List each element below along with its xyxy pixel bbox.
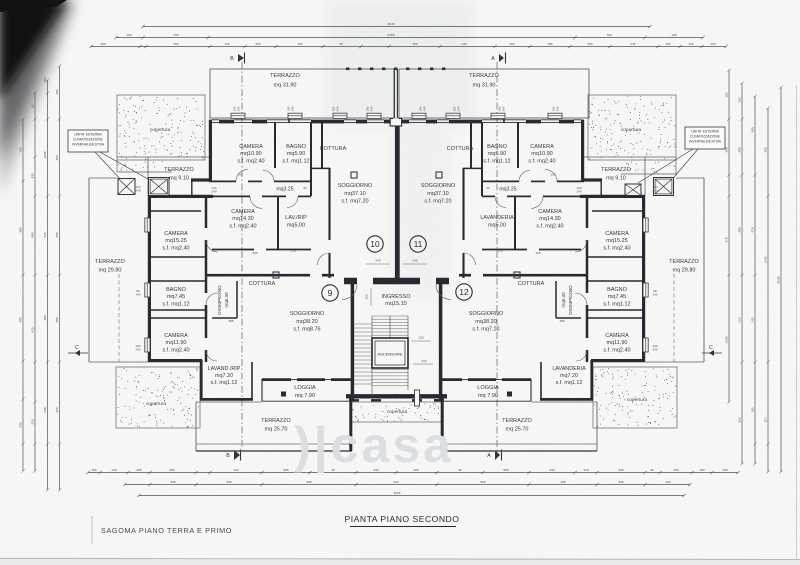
- corridor wall y=196: [543, 195, 580, 197]
- dim 240 under 10: [366, 263, 390, 265]
- ascensore box: [372, 338, 408, 368]
- window sills top wall thin: [574, 119, 581, 121]
- exterior wall: soggiorno/loggia with openings: [262, 378, 291, 381]
- stairwell side wall extension to terrace: [349, 398, 352, 451]
- exterior wall: unit upper-left vertical: [209, 120, 212, 181]
- exterior wall: camera 11.90 bottom: [591, 359, 645, 362]
- exterior wall: unit top (segments with window openings): [209, 120, 212, 124]
- dimension chain left-3: [47, 80, 49, 490]
- interior vertical x=206: [586, 196, 589, 228]
- stair treads upper: [372, 315, 408, 317]
- sill below stair bottom wall 2: [371, 399, 381, 401]
- stairwell side wall extension to terrace: [441, 398, 444, 451]
- bottom scan edge: [0, 559, 800, 560]
- camera 10.90 / bagno wall: [517, 122, 519, 168]
- scan corner dark top strip: [0, 0, 67, 12]
- stairwell side wall: [439, 281, 443, 400]
- long wall x=329: [328, 168, 330, 240]
- camera 10.90 / bagno wall: [274, 122, 276, 168]
- terrazzo top-left outline: [210, 69, 394, 118]
- loggia left edge: [261, 379, 263, 401]
- window sill top wall 1: [231, 113, 245, 118]
- apartment number 11: [410, 236, 426, 252]
- disimpegno wall: [555, 281, 557, 318]
- sill below stair bottom wall 1: [434, 399, 444, 401]
- dimension chain right-1: [728, 70, 730, 402]
- corridor wall y=181: [557, 180, 584, 182]
- dimension chain left-1: [22, 119, 24, 471]
- copertura stipple bottom-right: [593, 367, 677, 428]
- exterior wall: lavanderia left: [200, 360, 203, 400]
- sill below stair bottom wall 2: [412, 399, 422, 401]
- cottura separator: [321, 122, 323, 168]
- exterior wall: left main vertical: [642, 195, 645, 362]
- terrazzo 29.80 left outline: [88, 178, 90, 362]
- window sill loggia 1: [291, 379, 297, 381]
- ingresso T-wall stub: [344, 278, 357, 285]
- loggia bottom thin: [262, 400, 352, 402]
- dimension row bottom-3: [139, 495, 684, 497]
- scan streak top-center: [325, 0, 475, 125]
- small pillar left loggia: [281, 392, 286, 397]
- exterior wall: lavanderia left: [590, 360, 593, 400]
- loggia left edge: [530, 379, 532, 401]
- wall y=249.5: [212, 249, 254, 251]
- stair side rails: [371, 316, 373, 395]
- flue soggiorno12 right: [514, 272, 520, 278]
- unit boundary wall y=275: [483, 274, 587, 277]
- vent pipe: [415, 390, 420, 406]
- scan corner dark core: [0, 0, 66, 100]
- terrazzo top-right outline: [399, 69, 589, 118]
- window sill left wall: [643, 218, 648, 232]
- wall: lavanderia right: [251, 362, 253, 400]
- dimension row bottom-2: [125, 484, 690, 486]
- left column walls: [151, 210, 201, 212]
- terrazzo 25.70 left outline: [195, 402, 197, 451]
- dimension chain right-5: [780, 87, 782, 472]
- apartment number 9: [322, 285, 338, 301]
- terrazzo 9.10 right outline: [584, 156, 676, 158]
- scan streak center: [390, 120, 450, 300]
- disimpegno wall: [236, 281, 238, 318]
- window sill loggia 1: [496, 379, 502, 381]
- ingresso T-wall: [373, 278, 397, 285]
- exterior wall: unit top (segments with window openings): [581, 120, 584, 124]
- exterior wall: terrace 9.10 jog: [581, 178, 602, 181]
- white recess at spine/top-wall junction: [390, 119, 401, 127]
- stair treads lower: [372, 365, 408, 367]
- dimension chain right-4: [767, 108, 769, 472]
- corridor wall y=181: [209, 180, 236, 182]
- title block line: [91, 516, 93, 544]
- window sill left wall: [145, 218, 150, 232]
- copertura stipple top-left: [117, 95, 205, 160]
- dimension chain left-4: [59, 66, 61, 490]
- apartment number 10: [367, 236, 383, 252]
- exterior wall: lavanderia bottom: [540, 398, 593, 401]
- ingresso T-wall stub: [436, 278, 449, 285]
- loggia bottom thin: [441, 400, 531, 402]
- camera 14.30 / lav wall: [514, 197, 516, 249]
- stairwell side wall: [351, 281, 355, 400]
- corridor wall y=196: [213, 195, 250, 197]
- right scan edge line: [796, 85, 798, 558]
- long wall x=329: [462, 168, 464, 240]
- unita esterna box left: [68, 130, 108, 152]
- door arcs: [545, 169, 557, 181]
- scan corner mid shadow: [0, 0, 70, 162]
- central spine wall: [393, 69, 395, 119]
- bagno right wall: [310, 122, 312, 196]
- wall y=249.5: [539, 249, 581, 251]
- scan corner shadow: [0, 0, 76, 196]
- stairwell bottom wall: [346, 394, 398, 398]
- copertura stipple center-bottom: [350, 402, 443, 422]
- exterior wall: soggiorno/loggia with openings: [502, 378, 531, 381]
- terrazzo 9.10 left outline: [117, 156, 209, 158]
- copertura stipple top-right: [588, 95, 676, 160]
- dimension chain left-2: [34, 93, 36, 471]
- dimension row top-2: [116, 37, 703, 39]
- ingresso T-wall: [396, 278, 420, 285]
- section line A-A: [496, 62, 498, 450]
- small pillar right loggia: [507, 392, 512, 397]
- camera 14.30 / lav wall: [277, 197, 279, 249]
- stair dim 100: [411, 340, 431, 342]
- stair treads left flight: [354, 323, 372, 325]
- exterior wall: left main vertical: [148, 195, 151, 362]
- flue soggiorno9 left: [273, 272, 279, 278]
- apartment number 12: [456, 284, 472, 300]
- exterior wall: left step at y=196: [148, 195, 213, 198]
- unit boundary wall y=275: [206, 274, 310, 277]
- dim 240 under 11: [403, 263, 427, 265]
- dimension chain right-2: [741, 83, 743, 464]
- dimension row top-3: [91, 46, 726, 48]
- exterior wall: unit upper-left vertical: [581, 120, 584, 181]
- exterior wall: left step at y=196: [580, 195, 645, 198]
- terrace railing ticks top center: [346, 68, 453, 71]
- interior vertical x=206: [205, 196, 208, 228]
- copertura stipple bottom-left: [116, 367, 200, 428]
- dimension chain right-3: [754, 96, 756, 464]
- stairwell bottom wall: [395, 394, 447, 398]
- unita esterna box right: [685, 127, 725, 149]
- exterior wall: terrace 9.10 jog: [191, 178, 212, 181]
- flue soggiorno left: [351, 172, 357, 178]
- terrazzo 29.80 right outline: [703, 178, 705, 362]
- climate unit boxes right: [625, 184, 641, 196]
- section line B-B: [241, 62, 243, 450]
- door arcs: [236, 169, 248, 181]
- cottura separator: [470, 122, 472, 168]
- dimension row top-1: [143, 26, 650, 28]
- dimension row bottom-1: [88, 472, 738, 474]
- wall: lavanderia right: [540, 362, 542, 400]
- bagno right wall: [481, 122, 483, 196]
- terrazzo 25.70 right outline: [596, 402, 598, 451]
- left column walls: [592, 210, 642, 212]
- climate unit boxes left: [118, 179, 135, 195]
- sill below stair bottom wall 1: [349, 399, 359, 401]
- window sills top wall thin: [212, 119, 219, 121]
- exterior wall: lavanderia bottom: [200, 398, 253, 401]
- window sill top wall 1: [548, 113, 562, 118]
- exterior wall: camera 11.90 bottom: [148, 359, 202, 362]
- flue soggiorno right: [436, 172, 442, 178]
